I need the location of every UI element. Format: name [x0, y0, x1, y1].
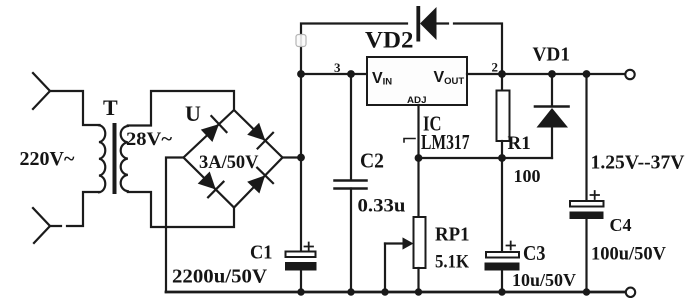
svg-text:LM317: LM317: [421, 130, 470, 154]
wire C3 to ground: [501, 271, 503, 293]
svg-text:3A/50V: 3A/50V: [199, 152, 259, 173]
svg-text:5.1K: 5.1K: [435, 251, 469, 272]
node dot C4 top: [583, 70, 591, 78]
svg-text:VD2: VD2: [365, 28, 414, 53]
capacitor C1 plus sign: [305, 243, 314, 251]
node dot C3 ground: [498, 288, 505, 295]
wire secondary bottom lead to bridge: [128, 192, 234, 227]
bridge rectifier U diamond: [184, 110, 283, 208]
capacitor C1 bottom plate: [285, 262, 317, 271]
svg-text:C1: C1: [250, 242, 273, 264]
wire C2 to ground: [350, 189, 352, 293]
svg-text:100: 100: [514, 166, 541, 186]
input terminal bottom: [33, 208, 50, 243]
node dot ADJ: [415, 154, 423, 162]
wire VOUT to output: [467, 73, 625, 75]
output terminal bottom: [626, 288, 635, 297]
RP1 wiper arrow: [385, 242, 405, 244]
bridge diode top-right (points to right corner): [247, 123, 265, 141]
artifact gray box on rail: [296, 35, 306, 47]
wire primary top lead: [50, 91, 100, 125]
svg-text:28V~: 28V~: [126, 129, 172, 150]
svg-text:R1: R1: [508, 133, 531, 154]
output terminal top: [625, 70, 634, 79]
capacitor C1 top plate: [286, 252, 316, 258]
input terminal top: [33, 73, 50, 109]
svg-text:U: U: [185, 101, 201, 126]
wire main rail down to C1: [300, 158, 302, 252]
potentiometer RP1 body: [414, 217, 426, 268]
capacitor C4 plus sign: [591, 191, 600, 199]
node dot RP1 ground: [415, 288, 422, 295]
node dot VIN rail: [297, 70, 305, 78]
wire R1 top lead: [501, 74, 503, 91]
wire VD1 anode down to node: [551, 128, 553, 159]
diode VD1 cathode bar: [535, 105, 569, 108]
wire top rail left segment: [297, 70, 590, 296]
svg-text:VD1: VD1: [533, 45, 571, 66]
IC U1 LM317 box: [367, 57, 467, 105]
svg-text:C2: C2: [360, 149, 384, 173]
node dot C2 ground: [347, 288, 354, 295]
wire secondary top lead to bridge: [128, 91, 234, 126]
wire RP1 wiper to ground: [384, 244, 386, 293]
wire C4 column upper: [585, 74, 587, 201]
capacitor C4 top plate: [570, 201, 604, 207]
capacitor C3 bottom plate: [485, 263, 520, 271]
wire main vertical rail upper: [301, 24, 407, 158]
diode VD1 triangle: [537, 108, 569, 128]
wire primary bottom lead: [50, 192, 100, 226]
node dot C4 ground: [583, 288, 590, 295]
wire C1 to ground: [300, 271, 302, 293]
transformer core: [113, 123, 117, 194]
capacitor C3 plus sign: [507, 242, 516, 250]
transformer T secondary winding: [121, 126, 128, 191]
wire VD1 top lead: [551, 74, 553, 105]
ADJ lead tick mark: [404, 139, 415, 143]
svg-text:3: 3: [334, 60, 341, 75]
svg-text:10u/50V: 10u/50V: [512, 270, 576, 290]
svg-text:0.33u: 0.33u: [358, 196, 406, 217]
wire R1 bottom to node: [501, 141, 503, 158]
wire top after VD2: [437, 24, 502, 75]
svg-text:RP1: RP1: [435, 224, 470, 246]
node dot C1 ground: [297, 288, 304, 295]
svg-text:100u/50V: 100u/50V: [591, 245, 667, 265]
svg-text:220V~: 220V~: [20, 148, 75, 170]
bridge diode top-left (points to top corner): [201, 124, 219, 142]
ground rail (bottom): [166, 291, 626, 294]
wire node to C3: [501, 158, 503, 252]
wire bridge minus to ground rail: [166, 158, 184, 293]
svg-text:C4: C4: [610, 215, 632, 235]
resistor R1 body: [497, 91, 510, 142]
wire ADJ node horizontal: [419, 157, 553, 159]
svg-text:2: 2: [492, 60, 499, 75]
transformer T primary winding: [99, 125, 105, 192]
svg-text:C3: C3: [523, 241, 546, 265]
diode VD2 cathode bar: [416, 6, 420, 42]
node dot C2 top: [347, 70, 355, 78]
wire C4 to ground: [585, 219, 587, 292]
bridge diode bottom-right (points to right corner): [247, 175, 265, 193]
wire ADJ lead down: [417, 105, 419, 217]
svg-text:ADJ: ADJ: [407, 95, 427, 106]
capacitor C3 top plate: [486, 252, 519, 258]
node dot pin2: [498, 70, 506, 78]
node dot VD1 top: [548, 70, 556, 78]
wire RP1 bottom to ground: [417, 268, 419, 292]
svg-text:T: T: [103, 95, 118, 120]
svg-text:1.25V--37V: 1.25V--37V: [591, 153, 685, 174]
node dot bridge plus: [297, 154, 305, 162]
wire C2 column upper: [350, 74, 352, 180]
wire VIN feed: [301, 73, 367, 75]
diode VD2 triangle: [420, 7, 437, 40]
svg-text:2200u/50V: 2200u/50V: [172, 266, 267, 288]
capacitor C2 plates: [335, 181, 367, 189]
node dot wiper ground: [381, 288, 388, 295]
capacitor C4 bottom plate: [570, 212, 604, 220]
node dot R1 bottom: [498, 154, 506, 162]
bridge diode bottom-left (points to bottom corner): [198, 172, 216, 190]
wire bridge plus to main rail: [283, 156, 302, 158]
